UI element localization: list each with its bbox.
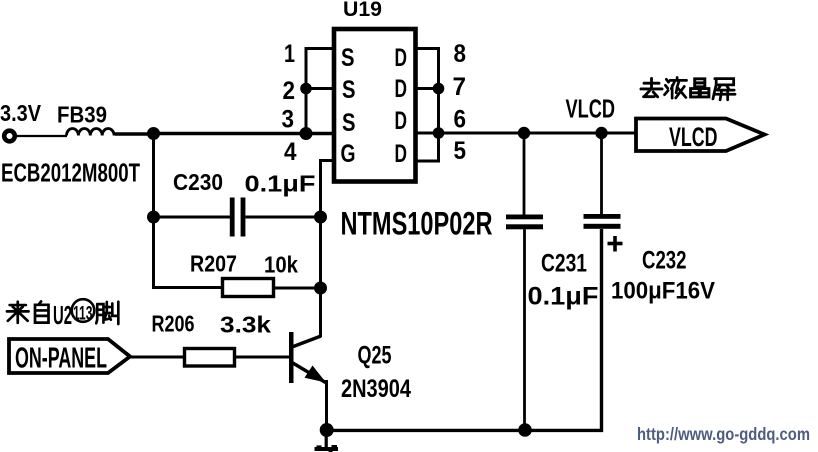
svg-text:4: 4 — [284, 138, 297, 166]
node ON-PANEL input flag — [9, 339, 130, 373]
svg-text:6: 6 — [454, 106, 467, 134]
svg-text:D: D — [395, 107, 408, 135]
wire C231 top — [523, 133, 526, 215]
svg-text:ON-PANEL: ON-PANEL — [15, 343, 107, 375]
char JIAO — [96, 302, 118, 324]
svg-text:D: D — [395, 44, 408, 72]
char ZI — [35, 301, 49, 322]
wire R206 to base — [235, 356, 292, 359]
svg-text:2N3904: 2N3904 — [341, 375, 411, 403]
wire right bus pins 8-7-6-5 — [415, 49, 439, 162]
wire C230 left — [154, 216, 231, 219]
svg-text:0.1μF: 0.1μF — [245, 171, 316, 197]
capacitor C232 — [584, 214, 621, 219]
svg-text:10k: 10k — [264, 252, 299, 278]
label to LCD panel: char QU — [641, 78, 662, 96]
svg-text:S: S — [342, 109, 356, 137]
node pin7 junction — [433, 83, 445, 95]
wire flag to R206 — [130, 356, 185, 359]
node B junction (left bus / rail) — [300, 127, 313, 140]
svg-text:VLCD: VLCD — [566, 94, 616, 124]
svg-text:FB39: FB39 — [57, 102, 107, 128]
wire 3.3V rail to U19 pin3 — [154, 132, 335, 136]
svg-text:C230: C230 — [173, 169, 223, 195]
svg-text:5: 5 — [454, 137, 467, 165]
char YE — [665, 77, 687, 98]
svg-text:VLCD: VLCD — [669, 122, 718, 152]
svg-text:Q25: Q25 — [358, 342, 392, 370]
node ground junction — [320, 423, 334, 437]
svg-text:S: S — [341, 44, 355, 72]
svg-text:U2: U2 — [53, 300, 72, 330]
node C231 top junction — [518, 127, 530, 139]
svg-text:R206: R206 — [152, 311, 195, 337]
wire terminal to FB39 — [15, 135, 67, 137]
wire C231 bottom — [523, 229, 526, 430]
circled pin 113 — [72, 299, 95, 322]
wire U19 gate pin 4 — [321, 161, 335, 338]
node C231 bottom junction — [518, 423, 532, 437]
svg-text:113: 113 — [73, 304, 93, 325]
svg-text:7: 7 — [453, 73, 467, 101]
resistor R206 — [185, 349, 235, 367]
node A junction (3.3V rail / C230 branch) — [147, 127, 160, 140]
node C230 right junction — [314, 211, 327, 224]
svg-text:C232: C232 — [642, 247, 687, 275]
wire C232 top — [600, 133, 603, 215]
svg-text:2: 2 — [283, 77, 296, 105]
wire C230 right — [245, 216, 320, 219]
ground — [325, 430, 328, 449]
svg-text:D: D — [395, 75, 408, 103]
svg-text:8: 8 — [454, 40, 467, 68]
capacitor C230 — [230, 198, 235, 237]
wire pin6 stub — [415, 132, 439, 135]
IC U19 (P-MOSFET array NTMS10P02R) — [334, 29, 416, 182]
svg-text:1: 1 — [284, 40, 295, 68]
wire left branch down from node A — [154, 134, 222, 288]
svg-text:3.3V: 3.3V — [0, 100, 42, 126]
svg-text:NTMS10P02R: NTMS10P02R — [341, 206, 493, 242]
svg-text:0.1μF: 0.1μF — [528, 283, 599, 311]
wire emitter down — [325, 380, 328, 430]
node pin6 junction — [433, 127, 445, 139]
char PING — [713, 79, 735, 100]
wire ground rail — [327, 229, 602, 430]
svg-text:3.3k: 3.3k — [220, 312, 271, 338]
wire VLCD rail — [439, 132, 638, 135]
transistor Q25 — [289, 332, 294, 383]
node pin2 junction — [300, 83, 312, 95]
svg-text:100μF16V: 100μF16V — [611, 278, 715, 305]
capacitor C231 — [506, 215, 543, 220]
wire left bus pins 1-2-3 — [306, 49, 332, 134]
svg-text:S: S — [342, 76, 356, 104]
node R207 right junction — [314, 282, 327, 295]
char JING — [691, 79, 709, 97]
svg-text:G: G — [341, 140, 356, 168]
node C232 top junction — [595, 127, 607, 139]
resistor R207 — [223, 279, 274, 297]
svg-text:U19: U19 — [343, 0, 382, 21]
wire R207 right — [274, 287, 321, 290]
node VLCD output flag to LCD — [636, 119, 765, 152]
wire pin2 stub — [306, 87, 332, 90]
svg-text:ECB2012M800T: ECB2012M800T — [1, 158, 140, 188]
svg-text:D: D — [395, 140, 408, 168]
svg-text:http://www.go-gddq.com: http://www.go-gddq.com — [637, 424, 810, 444]
label from U2 pin 113: char LAI — [7, 302, 29, 323]
3.3V terminal — [4, 131, 15, 142]
svg-text:R207: R207 — [190, 251, 237, 277]
svg-text:3: 3 — [282, 106, 295, 134]
svg-text:C231: C231 — [541, 250, 587, 278]
node C230 left junction — [147, 211, 160, 224]
ferrite bead FB39 — [67, 129, 115, 136]
wire pin7 stub — [415, 87, 439, 90]
wire FB39 to node A — [115, 132, 155, 136]
